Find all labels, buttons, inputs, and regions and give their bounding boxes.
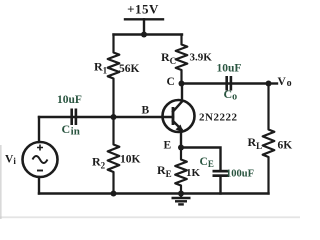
junction dot node C [179, 81, 185, 87]
wire CE bottom lead [219, 177, 221, 194]
left edge scan artifact [0, 145, 2, 219]
source Vi sine symbol [33, 156, 48, 163]
transistor collector segment [173, 101, 183, 112]
svg-text:Vo: Vo [278, 76, 292, 89]
svg-text:C: C [167, 76, 175, 88]
wire supply lead [143, 19, 145, 34]
supply terminal bar [125, 18, 163, 20]
wire collector [181, 84, 183, 102]
junction dot node B divider [111, 114, 117, 120]
svg-text:100uF: 100uF [226, 169, 254, 180]
resistor RC [176, 35, 188, 84]
transistor emitter arrow [176, 125, 184, 133]
ground symbol [172, 194, 191, 205]
resistor RE [175, 148, 187, 194]
svg-text:10K: 10K [120, 154, 141, 166]
svg-text:10uF: 10uF [217, 63, 242, 75]
wire top rail [114, 33, 183, 35]
junction dot node E [178, 145, 184, 151]
capacitor CE top plate [213, 170, 230, 173]
capacitor Co plates [225, 76, 228, 91]
source Vi minus sign [37, 170, 43, 172]
resistor R1 [108, 35, 120, 118]
wire Vo stub [269, 82, 278, 84]
svg-text:+15V: +15V [127, 1, 159, 16]
wire input to base [39, 116, 173, 118]
wire emitter [180, 130, 182, 148]
capacitor CE bottom plate [213, 174, 230, 177]
svg-text:1K: 1K [186, 167, 201, 179]
wire Vi top lead [38, 117, 40, 142]
svg-text:6K: 6K [278, 140, 293, 152]
svg-text:2N2222: 2N2222 [199, 112, 237, 124]
wire output [182, 82, 269, 84]
junction dot rail ground [178, 191, 184, 197]
capacitor Cin plates [70, 109, 73, 126]
source Vi circle [23, 142, 58, 177]
wire emitter to CE branch [181, 148, 221, 171]
svg-text:B: B [142, 105, 150, 117]
svg-text:10uF: 10uF [57, 94, 82, 106]
junction dot node Vo [266, 81, 272, 87]
source Vi plus sign [37, 145, 43, 151]
wire Vi bottom lead [38, 177, 40, 194]
bottom edge scan artifact [0, 216, 300, 218]
junction dot rail R2 [111, 191, 117, 197]
svg-text:Vi: Vi [5, 154, 16, 167]
resistor R2 [108, 117, 120, 194]
junction dot supply rail [141, 32, 147, 38]
wire bottom rail [39, 192, 269, 194]
svg-text:56K: 56K [119, 63, 140, 75]
resistor RL [263, 84, 275, 194]
svg-text:3.9K: 3.9K [190, 52, 213, 64]
transistor emitter segment [173, 121, 182, 130]
transistor base bar [172, 107, 175, 125]
svg-text:E: E [164, 140, 172, 152]
transistor Q1 2N2222 circle [163, 100, 195, 132]
